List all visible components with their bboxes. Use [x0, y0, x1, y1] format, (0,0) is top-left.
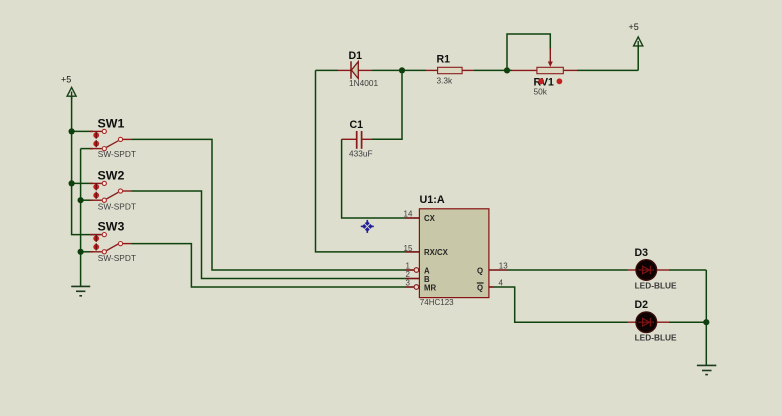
wire: top rail from D1 node down to RX/CX: [316, 70, 406, 252]
wire: SW2 top pin stub: [90, 182, 102, 184]
wire: SW2 pole pin stub: [123, 190, 132, 192]
wire: D3 left pin: [628, 269, 637, 271]
wire: D2 right pin: [656, 321, 669, 323]
svg-text:MR: MR: [424, 283, 436, 292]
wire: D3 right pin: [656, 269, 669, 271]
wire: R1 right pin: [462, 69, 474, 71]
wire: SW2 pole to pin B: [132, 191, 406, 279]
node: right rail junction: [703, 319, 709, 325]
ground (left): [71, 286, 90, 295]
svg-text:SW-SPDT: SW-SPDT: [98, 149, 136, 159]
svg-text:CX: CX: [424, 214, 436, 223]
svg-text:D2: D2: [635, 299, 649, 311]
wire: junction down to C1 right plate: [372, 70, 402, 139]
wire: D2 to right rail: [669, 321, 706, 323]
origin marker (blue): [361, 220, 374, 233]
node: R1/RV1 junction: [504, 67, 510, 73]
pin 1 A (bubble): [405, 269, 414, 271]
svg-text:15: 15: [404, 244, 413, 253]
potentiometer RV1: [507, 34, 638, 97]
power +5 right symbol: [634, 37, 643, 49]
wire: +5 right down to RV1: [637, 46, 639, 71]
node: bus junction at SW1: [69, 128, 75, 134]
wire: +5 left bus vertical: [72, 96, 101, 234]
wire: SW1 top feed: [72, 130, 93, 132]
wire: D1 left pin: [316, 69, 339, 71]
wire: RV1 left pin: [507, 69, 512, 71]
switch SW3: [81, 219, 136, 262]
svg-text:433uF: 433uF: [349, 149, 373, 159]
svg-text:1N4001: 1N4001: [349, 78, 378, 88]
svg-text:4: 4: [499, 279, 504, 288]
SW1 contacts: [102, 129, 106, 133]
C1 plates: [356, 131, 358, 149]
pin 4 Q-bar: [489, 286, 494, 288]
wire: R1 left pin: [402, 69, 426, 71]
pin 14 CX: [405, 217, 419, 219]
SW3 actuator arrows: [93, 235, 99, 251]
op-amp U1 (74HC123 monostable) box: [404, 194, 509, 307]
node: gnd bus junction at SW3 bottom: [78, 249, 84, 255]
svg-text:C1: C1: [350, 119, 364, 131]
RV1 actuator dots: [538, 78, 544, 84]
LED D3: [628, 247, 678, 291]
pin 13 Q: [489, 269, 508, 271]
wire: C1 right pin: [362, 138, 372, 140]
wire: C1 left down to pin CX: [342, 139, 405, 218]
D1 triangle: [351, 62, 358, 79]
wire: Q to D3: [508, 269, 628, 271]
wire: D2 left pin: [628, 321, 637, 323]
svg-text:50k: 50k: [534, 87, 548, 97]
svg-text:+5: +5: [629, 22, 639, 32]
switch SW2: [81, 168, 136, 211]
wire: SW3 pole to pin MR: [132, 244, 406, 287]
wire: SW3 bottom pin: [81, 251, 93, 253]
pin 3 MR (bubble): [405, 286, 414, 288]
svg-text:D3: D3: [635, 247, 649, 259]
node: gnd bus junction at SW2 bottom: [78, 197, 84, 203]
wire: D3 to right rail: [669, 269, 706, 271]
node: bus junction at SW2: [69, 180, 75, 186]
svg-text:3: 3: [406, 278, 411, 287]
power +5 left symbol: [67, 87, 76, 99]
wire: RV1 right pin: [563, 69, 577, 71]
svg-text:14: 14: [404, 210, 413, 219]
svg-text:SW2: SW2: [98, 168, 125, 182]
pin 2 B: [405, 278, 419, 280]
RV1 wiper arrow: [549, 48, 551, 63]
wire: SW2 top feed: [72, 182, 93, 184]
wire: SW1 pole to pin A: [132, 139, 406, 270]
svg-text:SW3: SW3: [98, 219, 125, 233]
wire: SW1 top pin stub: [90, 130, 102, 132]
svg-text:+5: +5: [61, 75, 71, 85]
svg-text:D1: D1: [349, 50, 363, 62]
pin 15 RX/CX: [405, 251, 419, 253]
SW2 contacts: [102, 181, 106, 185]
wire: C1 left pin: [342, 138, 356, 140]
ground (right): [697, 365, 716, 374]
svg-text:LED-BLUE: LED-BLUE: [635, 281, 677, 291]
svg-text:U1:A: U1:A: [420, 194, 445, 206]
wire: ground bus vertical (switch commons): [80, 149, 82, 287]
svg-text:RX/CX: RX/CX: [424, 248, 449, 257]
LED D2: [628, 299, 678, 343]
wire: SW1 bottom pin: [81, 148, 93, 150]
SW2 actuator arrows: [93, 183, 99, 199]
svg-text:SW1: SW1: [98, 116, 125, 130]
wire: SW3 top pin stub: [90, 234, 102, 236]
SW3 contacts: [102, 233, 106, 237]
svg-text:13: 13: [499, 261, 508, 270]
SW2 lever: [106, 192, 118, 199]
svg-text:R1: R1: [437, 54, 451, 66]
diode D1: [316, 50, 403, 88]
svg-text:SW-SPDT: SW-SPDT: [98, 253, 136, 263]
svg-text:74HC123: 74HC123: [420, 298, 454, 307]
resistor R1: [402, 54, 507, 86]
svg-text:3.3k: 3.3k: [437, 76, 454, 86]
svg-text:Q: Q: [477, 283, 483, 292]
wire: D1 right pin: [358, 69, 372, 71]
wire: right rail down to ground: [705, 270, 707, 365]
node: D1/R1/C1 junction: [399, 67, 405, 73]
switch SW1: [81, 116, 136, 159]
wire: SW3 pole pin stub: [123, 243, 132, 245]
wire: Q-bar to D2: [494, 287, 628, 322]
capacitor C1: [342, 119, 373, 158]
wire: SW1 pole pin stub: [123, 138, 132, 140]
D1 cathode bar: [350, 61, 352, 79]
svg-text:LED-BLUE: LED-BLUE: [635, 332, 677, 342]
svg-text:Q: Q: [477, 266, 483, 275]
wire: wiper loop: [507, 34, 550, 70]
SW3 lever: [106, 244, 118, 251]
SW1 lever: [106, 141, 118, 148]
wire: SW2 bottom pin: [81, 199, 93, 201]
SW1 actuator arrows: [93, 132, 99, 148]
R1 body: [438, 67, 463, 73]
RV1 body: [537, 67, 563, 73]
svg-text:SW-SPDT: SW-SPDT: [98, 201, 136, 211]
